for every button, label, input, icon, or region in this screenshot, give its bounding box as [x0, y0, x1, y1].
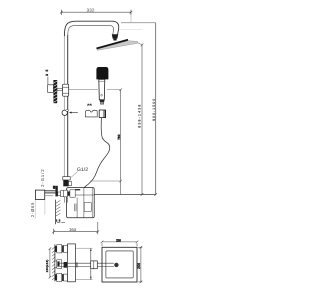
svg-text:150(±15): 150(±15): [46, 260, 49, 273]
dimension 164: [52, 222, 99, 234]
bracket arm connector: [57, 89, 62, 91]
arm in top view: [60, 262, 114, 264]
hand shower holder clamp: [85, 110, 97, 117]
arm union nut top view: [91, 261, 98, 269]
svg-text:A-A: A-A: [87, 104, 92, 107]
wall bracket hatched wall patch: [53, 80, 57, 103]
gray reference line from tube top: [121, 22, 156, 24]
overhead shower head (side view): [96, 39, 128, 50]
wall escutcheon: [35, 190, 44, 199]
extension line from head to dim: [138, 43, 143, 45]
hose inlet fitting on body top: [75, 189, 80, 191]
arrow to knob: [71, 112, 78, 114]
vertical dim beside arm: [75, 247, 92, 249]
hand shower hose: [84, 118, 110, 191]
mixer body top view: [68, 244, 76, 282]
svg-text:256: 256: [116, 238, 121, 242]
dimension 256 top: [101, 241, 139, 247]
dimension 256 right: [138, 246, 142, 283]
svg-text:780: 780: [117, 134, 121, 140]
valve row: [53, 186, 55, 189]
holder height reference line: [69, 89, 98, 91]
svg-text:2-Ø65: 2-Ø65: [30, 202, 35, 217]
bottom inlet union: [55, 274, 57, 280]
dimension 838-1438: [141, 44, 144, 196]
outlet baseline: [76, 194, 156, 196]
overhead shower square inner: [106, 251, 133, 278]
wall anchor: [48, 85, 54, 93]
outlet height reference line: [90, 180, 120, 182]
top inlet union: [55, 246, 57, 252]
ball joint nut: [112, 34, 118, 38]
hand shower head: [96, 67, 108, 79]
svg-text:25: 25: [56, 218, 61, 222]
svg-text:164: 164: [69, 227, 77, 232]
shower arm tube (top bend): [64, 21, 118, 36]
holder block: [99, 110, 105, 118]
mixer body: [67, 188, 95, 218]
handle nut: [100, 100, 105, 102]
dimension 900-1500: [154, 23, 157, 196]
riser union nut: [63, 177, 70, 180]
supply pipe lines: [45, 190, 56, 192]
svg-text:838-1438: 838-1438: [138, 105, 142, 128]
hand shower handle: [99, 79, 105, 99]
wall section hatch below supply: [55, 200, 57, 225]
overhead shower square outer: [102, 247, 137, 282]
dimension 332 top: [60, 10, 132, 23]
diverter knob: [62, 110, 67, 115]
ball joint dot: [114, 263, 118, 267]
dimension 780: [119, 88, 122, 194]
svg-text:332: 332: [87, 7, 95, 12]
riser pipe: [63, 35, 65, 177]
svg-text:G1/2: G1/2: [77, 167, 88, 173]
middle outlet union: [55, 261, 57, 267]
wall line with hatch: [54, 244, 56, 281]
svg-text:256: 256: [137, 263, 141, 269]
svg-text:2-G1/2: 2-G1/2: [40, 169, 45, 187]
slider clamp on pipe: [63, 84, 69, 96]
svg-text:900-1500: 900-1500: [152, 99, 156, 121]
cartridge lines below valve row: [63, 197, 65, 203]
dimension 150(±15): [49, 247, 52, 278]
